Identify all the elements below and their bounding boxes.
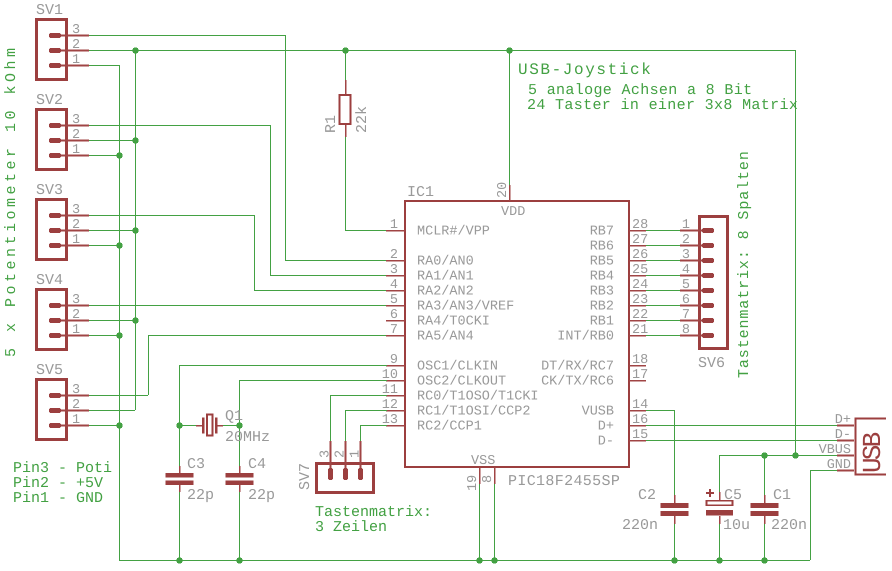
svg-text:D-: D- [835, 428, 851, 443]
svg-text:RB3: RB3 [590, 285, 614, 300]
wire +5V vertical right to USB VBUS [795, 50, 797, 455]
svg-text:9: 9 [390, 353, 398, 368]
svg-text:3: 3 [319, 450, 334, 458]
wire RC0 to SV7 pin3 [330, 395, 387, 397]
junction crystal left [176, 422, 182, 428]
wire SV5 pin3 to IC RA5 net [89, 395, 148, 397]
svg-text:26: 26 [632, 248, 648, 263]
junction crystal right [236, 422, 242, 428]
junction C1 bottom [761, 557, 767, 563]
svg-text:27: 27 [632, 233, 648, 248]
wire D- net [646, 440, 837, 442]
svg-text:1: 1 [72, 413, 80, 428]
svg-text:RB7: RB7 [590, 225, 614, 240]
svg-text:1: 1 [72, 323, 80, 338]
svg-text:OSC2/CLKOUT: OSC2/CLKOUT [417, 375, 506, 390]
svg-text:6: 6 [682, 293, 690, 308]
wire SV4 pin3 to IC RA3 net [89, 305, 387, 307]
wire VSS pin8 to GND rail [494, 484, 496, 560]
svg-text:D+: D+ [598, 420, 614, 435]
wire SV4 pin1 stub [89, 335, 119, 337]
capacitor C1 [751, 487, 808, 534]
junction VBUS +5V [792, 452, 798, 458]
svg-text:RA4/T0CKI: RA4/T0CKI [417, 315, 490, 330]
svg-text:1: 1 [390, 218, 398, 233]
svg-text:1: 1 [682, 218, 690, 233]
svg-text:3: 3 [72, 383, 80, 398]
wire RB6 to SV6 pin 2 [646, 245, 680, 247]
svg-text:D-: D- [598, 435, 614, 450]
wire SV3 pin1 stub [89, 245, 119, 247]
wire SV2 pin2 stub [89, 140, 135, 142]
wire SV2 pin1 stub [89, 155, 119, 157]
svg-text:4: 4 [682, 263, 690, 278]
crystal Q1 [196, 408, 270, 446]
svg-text:VUSB: VUSB [582, 405, 614, 420]
svg-text:RA2/AN2: RA2/AN2 [417, 285, 474, 300]
svg-text:RB1: RB1 [590, 315, 614, 330]
svg-text:8: 8 [481, 475, 496, 483]
svg-text:18: 18 [632, 353, 648, 368]
svg-text:RC2/CCP1: RC2/CCP1 [417, 420, 482, 435]
svg-text:RC0/T1OSO/T1CKI: RC0/T1OSO/T1CKI [417, 390, 539, 405]
svg-text:SV3: SV3 [36, 182, 63, 199]
junction R1 top [342, 47, 348, 53]
connector SV2 [36, 92, 89, 170]
junction VSS19 bottom [476, 557, 482, 563]
wire C4 to GND rail [239, 492, 241, 560]
svg-text:220n: 220n [622, 517, 658, 534]
svg-text:7: 7 [390, 323, 398, 338]
connector USB [819, 413, 888, 475]
junction SV4 pin1 [116, 332, 122, 338]
svg-text:20MHz: 20MHz [225, 429, 270, 446]
svg-text:SV1: SV1 [36, 2, 63, 19]
junction VDD pin 20 [506, 47, 512, 53]
svg-text:DT/RX/RC7: DT/RX/RC7 [541, 360, 614, 375]
junction C2 bottom [671, 557, 677, 563]
svg-text:10u: 10u [723, 517, 750, 534]
svg-text:GND: GND [827, 458, 851, 473]
wire C3 to GND rail [179, 492, 181, 560]
wire RC1 to SV7 pin2 [345, 410, 387, 412]
wire RB2 to SV6 pin 6 [646, 305, 680, 307]
svg-text:2: 2 [72, 308, 80, 323]
wire crystal right stub [223, 425, 239, 427]
wire SV4 pin2 stub [89, 320, 135, 322]
svg-text:OSC1/CLKIN: OSC1/CLKIN [417, 360, 498, 375]
svg-text:2: 2 [72, 128, 80, 143]
svg-text:20: 20 [496, 182, 511, 198]
wire RB1 to SV6 pin 7 [646, 320, 680, 322]
svg-text:15: 15 [632, 428, 648, 443]
wire OSC1 to crystal [179, 365, 387, 367]
wire SV5 pin2 stub [89, 410, 135, 412]
svg-text:22p: 22p [248, 487, 275, 504]
svg-text:D+: D+ [835, 413, 851, 428]
wire VBUS to C5 [719, 455, 721, 492]
svg-text:21: 21 [632, 323, 648, 338]
svg-text:24: 24 [632, 278, 648, 293]
svg-text:C1: C1 [773, 487, 791, 504]
svg-text:3 Zeilen: 3 Zeilen [315, 519, 387, 536]
svg-text:17: 17 [632, 368, 648, 383]
wire VSS pin19 to GND rail [479, 484, 481, 560]
svg-text:22k: 22k [354, 106, 371, 133]
svg-text:RB5: RB5 [590, 255, 614, 270]
wire SV1 pin3 to IC RA0 net [89, 35, 285, 37]
svg-text:VSS: VSS [471, 454, 495, 469]
svg-text:INT/RB0: INT/RB0 [557, 330, 614, 345]
wire SV3 pin3 to IC RA2 net [89, 215, 254, 217]
connector SV3 [36, 182, 89, 260]
svg-text:19: 19 [466, 475, 481, 491]
svg-text:SV2: SV2 [36, 92, 63, 109]
svg-text:RB6: RB6 [590, 240, 614, 255]
capacitor C5 [706, 487, 750, 534]
svg-text:3: 3 [390, 263, 398, 278]
capacitor C4 [226, 456, 276, 504]
wire OSC2 to crystal [239, 380, 387, 382]
svg-text:1: 1 [72, 53, 80, 68]
capacitor C2 [622, 487, 689, 534]
svg-text:PIC18F2455SP: PIC18F2455SP [508, 473, 620, 490]
svg-text:24 Taster in einer 3x8 Matrix: 24 Taster in einer 3x8 Matrix [527, 97, 798, 114]
svg-text:SV5: SV5 [36, 362, 63, 379]
connector SV6 [680, 217, 728, 373]
wire SV2 pin3 to IC RA1 net [89, 125, 270, 127]
svg-text:USB: USB [858, 432, 888, 473]
wire RB4 to SV6 pin 4 [646, 275, 680, 277]
junction VBUS C1 [761, 452, 767, 458]
svg-text:4: 4 [390, 278, 398, 293]
wire +5V rail top [89, 50, 795, 52]
svg-text:RC1/T1OSI/CCP2: RC1/T1OSI/CCP2 [417, 405, 530, 420]
svg-text:SV6: SV6 [698, 355, 725, 372]
svg-text:220n: 220n [771, 517, 807, 534]
svg-text:1: 1 [349, 450, 364, 458]
capacitor C3 [166, 456, 215, 504]
wire RB0 to SV6 pin 8 [646, 335, 680, 337]
wire C5 to GND rail [719, 524, 721, 560]
svg-text:7: 7 [682, 308, 690, 323]
junction +5V at SV1 pin2 [132, 47, 138, 53]
svg-text:3: 3 [72, 113, 80, 128]
svg-text:6: 6 [390, 308, 398, 323]
wire R1 to IC MCLR [345, 137, 347, 230]
svg-text:14: 14 [632, 398, 648, 413]
wire RC2 to SV7 pin1 [360, 425, 387, 427]
junction C5 bottom [716, 557, 722, 563]
svg-text:2: 2 [72, 218, 80, 233]
wire VUSB to C2 [646, 410, 674, 412]
svg-text:23: 23 [632, 293, 648, 308]
svg-text:CK/TX/RC6: CK/TX/RC6 [541, 375, 614, 390]
wire SV5 pin1 stub [89, 425, 119, 427]
wire VBUS to C1 [764, 455, 766, 495]
svg-text:2: 2 [72, 38, 80, 53]
wire crystal left stub [179, 425, 196, 427]
junction SV2 pin2 [132, 137, 138, 143]
svg-text:RA0/AN0: RA0/AN0 [417, 255, 474, 270]
svg-text:SV7: SV7 [297, 463, 314, 490]
connector SV5 [36, 362, 89, 440]
svg-text:25: 25 [632, 263, 648, 278]
svg-text:Tastenmatrix: 8 Spalten: Tastenmatrix: 8 Spalten [736, 150, 753, 378]
svg-text:2: 2 [390, 248, 398, 263]
svg-text:C4: C4 [248, 456, 266, 473]
connector SV1 [36, 2, 89, 80]
svg-text:SV4: SV4 [36, 272, 63, 289]
svg-text:MCLR#/VPP: MCLR#/VPP [417, 225, 490, 240]
wire VBUS net [719, 455, 837, 457]
wire SV3 pin2 stub [89, 230, 135, 232]
svg-text:RA3/AN3/VREF: RA3/AN3/VREF [417, 300, 514, 315]
junction C4 bottom [236, 557, 242, 563]
svg-text:28: 28 [632, 218, 648, 233]
svg-text:3: 3 [72, 293, 80, 308]
wire RB5 to SV6 pin 3 [646, 260, 680, 262]
connector SV7 [297, 441, 374, 493]
junction SV4 pin2 [132, 317, 138, 323]
wire GND bottom rail [119, 560, 810, 562]
wire USB GND [810, 470, 837, 472]
wire +5V to R1 [345, 50, 347, 80]
svg-text:RB2: RB2 [590, 300, 614, 315]
svg-text:C3: C3 [187, 456, 205, 473]
wire C1 to GND rail [764, 524, 766, 560]
svg-text:22: 22 [632, 308, 648, 323]
wire D+ net [646, 425, 837, 427]
junction SV2 pin1 [116, 152, 122, 158]
junction VSS8 bottom [491, 557, 497, 563]
svg-text:1: 1 [72, 233, 80, 248]
IC U1 microcontroller IC1 PIC18F2455SP [382, 182, 648, 491]
svg-text:R1: R1 [323, 115, 340, 133]
svg-text:5 x Potentiometer 10 kOhm: 5 x Potentiometer 10 kOhm [3, 44, 20, 357]
svg-text:USB-Joystick: USB-Joystick [518, 61, 652, 79]
junction SV5 pin1 [116, 422, 122, 428]
svg-text:5: 5 [682, 278, 690, 293]
svg-text:2: 2 [72, 398, 80, 413]
resistor R1 [323, 80, 371, 137]
svg-text:2: 2 [334, 450, 349, 458]
wire C2 to GND rail [674, 524, 676, 560]
svg-text:RB4: RB4 [590, 270, 614, 285]
svg-text:VBUS: VBUS [819, 443, 851, 458]
svg-text:C5: C5 [724, 487, 742, 504]
wire RB3 to SV6 pin 5 [646, 290, 680, 292]
svg-text:3: 3 [682, 248, 690, 263]
wire SV1 pin1 corner [89, 65, 119, 67]
svg-text:8: 8 [682, 323, 690, 338]
svg-text:5: 5 [390, 293, 398, 308]
svg-text:1: 1 [72, 143, 80, 158]
svg-text:RA5/AN4: RA5/AN4 [417, 330, 474, 345]
svg-text:IC1: IC1 [407, 184, 434, 201]
svg-text:VDD: VDD [501, 205, 525, 220]
svg-text:3: 3 [72, 203, 80, 218]
junction SV3 pin1 [116, 242, 122, 248]
svg-text:16: 16 [632, 413, 648, 428]
wire +5V vertical bus [135, 50, 137, 410]
wire VDD pin20 to +5V rail [509, 50, 511, 185]
svg-text:3: 3 [72, 23, 80, 38]
junction C3 bottom [176, 557, 182, 563]
svg-text:22p: 22p [187, 487, 214, 504]
svg-text:C2: C2 [638, 487, 656, 504]
junction SV3 pin2 [132, 227, 138, 233]
svg-text:2: 2 [682, 233, 690, 248]
svg-text:RA1/AN1: RA1/AN1 [417, 270, 474, 285]
svg-text:Pin1 - GND: Pin1 - GND [13, 490, 103, 507]
wire RB7 to SV6 pin 1 [646, 230, 680, 232]
connector SV4 [36, 272, 89, 350]
